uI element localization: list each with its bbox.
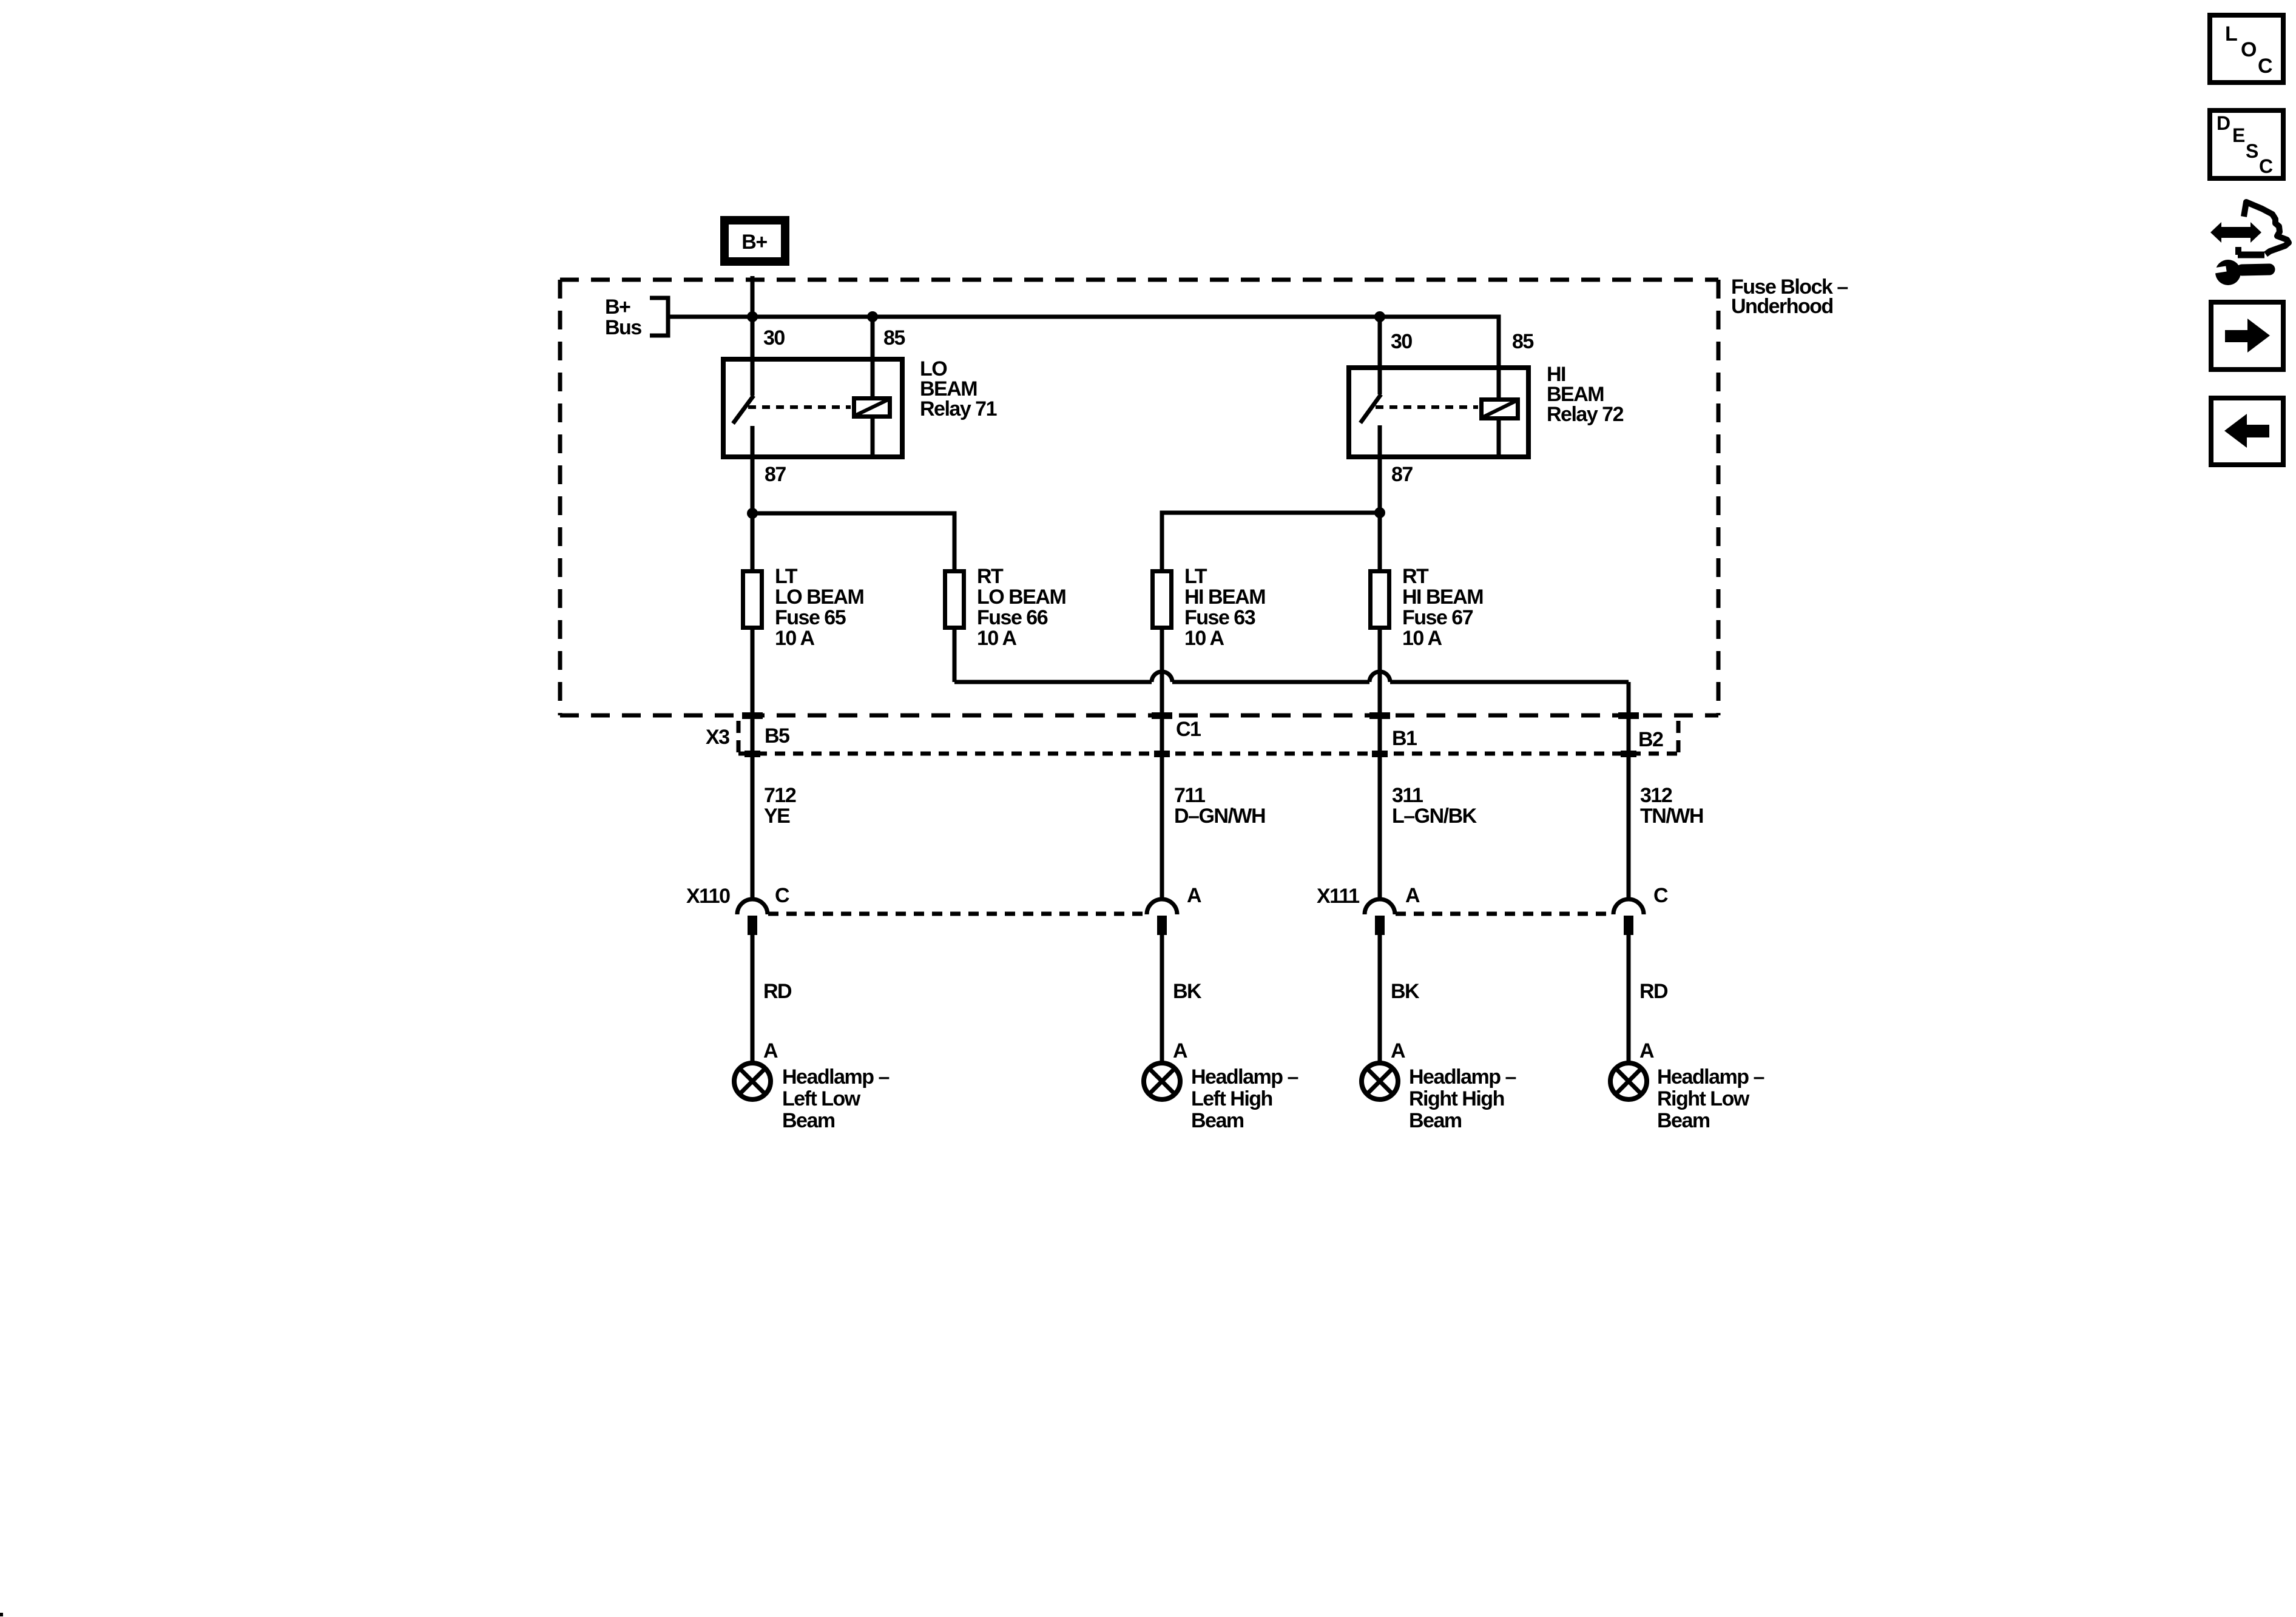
svg-text:D–GN/WH: D–GN/WH <box>1174 805 1265 828</box>
connector X110 pin A male terminal <box>1157 916 1167 935</box>
svg-text:HI BEAM: HI BEAM <box>1184 586 1265 609</box>
svg-text:B+: B+ <box>605 295 630 319</box>
svg-text:A: A <box>1639 1039 1654 1062</box>
connector X3 left bracket <box>737 721 741 757</box>
svg-text:A: A <box>1391 1039 1405 1062</box>
svg-text:B2: B2 <box>1638 728 1663 751</box>
svg-text:TN/WH: TN/WH <box>1640 805 1703 828</box>
lamp E1 label <box>782 1065 889 1132</box>
wire branch 87 to fuse 63 <box>1162 513 1380 569</box>
relay 71 actuation dashed link <box>748 405 851 409</box>
B+ power symbol box <box>724 220 785 262</box>
svg-text:Headlamp –: Headlamp – <box>1191 1065 1298 1089</box>
svg-text:C: C <box>775 884 789 907</box>
sidebar component view icon (arrow, part outline, wrench) <box>2210 202 2289 285</box>
svg-text:Fuse 66: Fuse 66 <box>977 606 1048 629</box>
lamp E4 label <box>1657 1065 1764 1132</box>
svg-text:BK: BK <box>1173 980 1202 1003</box>
relay 72 switch arm <box>1360 394 1381 423</box>
svg-text:HI BEAM: HI BEAM <box>1402 586 1483 609</box>
svg-text:Beam: Beam <box>782 1109 835 1132</box>
page corner mark <box>0 1613 3 1616</box>
relay 72 pin85 internal leads <box>1497 368 1501 397</box>
wire relay 72 pin 87 down <box>1378 457 1382 569</box>
svg-text:B5: B5 <box>765 724 789 748</box>
lamp E3 Headlamp Right High Beam <box>1362 1063 1398 1099</box>
relay 71 switch arm <box>733 396 754 424</box>
lamp E4 Headlamp Right Low Beam <box>1610 1063 1647 1099</box>
svg-text:B+: B+ <box>741 231 767 254</box>
wire bus to relay 72 pin 30 <box>1378 317 1382 368</box>
svg-text:RD: RD <box>763 980 792 1003</box>
wire circuit 311 L-GN/BK label <box>1392 784 1477 828</box>
svg-text:Beam: Beam <box>1191 1109 1244 1132</box>
connector X111 cavity A arc <box>1365 899 1395 914</box>
svg-text:A: A <box>763 1039 778 1062</box>
svg-text:YE: YE <box>764 805 790 828</box>
svg-text:Beam: Beam <box>1409 1109 1462 1132</box>
sidebar LOC icon box <box>2210 15 2283 83</box>
Fuse Block - Underhood label <box>1731 275 1848 318</box>
svg-text:87: 87 <box>1391 463 1413 486</box>
wire B+ down to relay 71 pin 30 <box>751 276 755 359</box>
connector X3 right bracket <box>1676 721 1681 757</box>
connector X111 pin C male terminal <box>1624 916 1633 935</box>
connector X110 cavity A arc <box>1147 899 1177 914</box>
svg-text:A: A <box>1187 884 1201 907</box>
svg-text:Fuse 63: Fuse 63 <box>1184 606 1255 629</box>
relay K72 HI BEAM Relay box <box>1349 368 1528 457</box>
fuse F65 label <box>775 565 863 650</box>
svg-text:B1: B1 <box>1392 727 1417 750</box>
svg-text:10 A: 10 A <box>1402 627 1442 650</box>
svg-text:C: C <box>2259 155 2273 177</box>
connector X3 lower dashed line <box>738 752 1678 756</box>
connector X110 pin C male terminal <box>748 916 757 935</box>
svg-text:Bus: Bus <box>605 316 641 339</box>
svg-text:C: C <box>2258 55 2272 78</box>
wire fuse 67 output to connector X3 pin B1 <box>1378 630 1382 899</box>
svg-text:Headlamp –: Headlamp – <box>1409 1065 1516 1089</box>
svg-text:A: A <box>1405 884 1420 907</box>
svg-text:LT: LT <box>1184 565 1207 588</box>
fuse F65 <box>743 572 762 628</box>
svg-text:RT: RT <box>1402 565 1429 588</box>
svg-text:712: 712 <box>764 784 796 807</box>
wire branch 87 to fuse 66 <box>752 513 954 569</box>
relay 72 coil <box>1482 400 1518 419</box>
wire BK to left high beam lamp <box>1160 934 1164 1063</box>
svg-text:312: 312 <box>1640 784 1672 807</box>
relay 71 pin85 internal leads <box>871 359 875 396</box>
junction node on bus at relay 71 pin 85 <box>867 311 878 322</box>
fuse F63 label <box>1184 565 1265 650</box>
svg-text:10 A: 10 A <box>977 627 1017 650</box>
svg-text:711: 711 <box>1174 784 1205 807</box>
svg-text:85: 85 <box>883 326 905 349</box>
svg-text:C: C <box>1653 884 1668 907</box>
wire RD to right low beam lamp <box>1627 934 1631 1063</box>
connector X3 lower ticks <box>745 751 1636 757</box>
junction node on bus at relay 71 pin 30 <box>747 311 758 322</box>
svg-text:E: E <box>2232 124 2245 146</box>
wire RD to left low beam lamp <box>751 934 755 1063</box>
fuse F66 label <box>977 565 1065 650</box>
sidebar back arrow icon box <box>2211 398 2283 465</box>
svg-text:Left Low: Left Low <box>782 1087 861 1110</box>
svg-text:Fuse 65: Fuse 65 <box>775 606 846 629</box>
svg-text:RT: RT <box>977 565 1004 588</box>
wire fuse 66 output to connector X3 pin B2 with crossover hops <box>954 630 1629 899</box>
lamp E2 label <box>1191 1065 1298 1132</box>
wire circuit 312 TN/WH label <box>1640 784 1703 828</box>
svg-text:BK: BK <box>1391 980 1420 1003</box>
connector X111 cavity C arc <box>1613 899 1644 914</box>
sidebar forward arrow icon box <box>2211 302 2283 370</box>
fuse F67 <box>1371 572 1389 628</box>
svg-text:Relay 72: Relay 72 <box>1547 403 1624 426</box>
svg-text:A: A <box>1173 1039 1187 1062</box>
svg-text:Fuse 67: Fuse 67 <box>1402 606 1473 629</box>
fuse block underhood dashed boundary box <box>560 280 1718 715</box>
svg-text:Right Low: Right Low <box>1657 1087 1750 1110</box>
svg-text:Headlamp –: Headlamp – <box>782 1065 889 1089</box>
svg-text:30: 30 <box>763 326 785 349</box>
wire relay 71 pin 87 down <box>751 457 755 569</box>
svg-text:85: 85 <box>1512 330 1533 353</box>
svg-text:O: O <box>2241 38 2257 61</box>
wire fuse 63 output to connector X3 pin C1 <box>1160 630 1164 899</box>
svg-text:10 A: 10 A <box>775 627 815 650</box>
svg-text:D: D <box>2217 112 2230 134</box>
lamp E3 label <box>1409 1065 1516 1132</box>
sidebar DESC icon box <box>2210 110 2283 178</box>
svg-text:Relay 71: Relay 71 <box>920 397 997 420</box>
svg-text:X110: X110 <box>686 885 730 908</box>
relay 71 name label <box>920 357 997 420</box>
wire B+ bus horizontal <box>669 317 1499 368</box>
svg-text:LT: LT <box>775 565 798 588</box>
svg-text:RD: RD <box>1639 980 1668 1003</box>
svg-text:Left High: Left High <box>1191 1087 1272 1110</box>
fuse F67 label <box>1402 565 1483 650</box>
relay 72 name label <box>1547 363 1624 426</box>
B+ Bus bracket <box>650 298 668 336</box>
wire BK to right high beam lamp <box>1378 934 1382 1063</box>
svg-text:311: 311 <box>1392 784 1423 807</box>
relay 71 coil <box>854 399 890 417</box>
relay 72 lower contact stub <box>1378 425 1382 457</box>
connector X110 dashed body line <box>768 912 1147 916</box>
relay 71 lower contact stub <box>751 426 755 457</box>
relay 72 pin30 internal lead <box>1378 368 1382 394</box>
connector X111 pin A male terminal <box>1375 916 1385 935</box>
relay K71 LO BEAM Relay box <box>723 359 902 457</box>
svg-text:X3: X3 <box>706 726 729 749</box>
svg-text:Beam: Beam <box>1657 1109 1710 1132</box>
svg-text:Headlamp –: Headlamp – <box>1657 1065 1764 1089</box>
svg-text:87: 87 <box>765 463 786 486</box>
svg-text:X111: X111 <box>1317 885 1359 908</box>
svg-text:L: L <box>2225 22 2237 46</box>
junction node at relay 72 87 branch <box>1374 507 1385 518</box>
svg-text:S: S <box>2246 140 2258 162</box>
svg-text:LO BEAM: LO BEAM <box>775 586 863 609</box>
wire circuit 711 D-GN/WH label <box>1174 784 1265 828</box>
fuse F63 <box>1153 572 1172 628</box>
connector X3 pass-through ticks on fuse block edge <box>742 712 1639 719</box>
svg-text:C1: C1 <box>1176 718 1201 741</box>
wire circuit 712 YE label <box>764 784 796 828</box>
junction node on bus at relay 72 pin 30 <box>1374 311 1385 322</box>
connector X111 dashed body line <box>1396 912 1613 916</box>
svg-text:30: 30 <box>1391 330 1412 353</box>
B+ Bus net label <box>605 295 641 339</box>
lamp E1 Headlamp Left Low Beam <box>734 1063 771 1099</box>
svg-text:Underhood: Underhood <box>1731 295 1833 318</box>
svg-text:LO BEAM: LO BEAM <box>977 586 1065 609</box>
fuse F66 <box>945 572 964 628</box>
wire fuse 65 output to connector X3 pin B5 <box>751 630 755 899</box>
svg-text:10 A: 10 A <box>1184 627 1224 650</box>
lamp E2 Headlamp Left High Beam <box>1144 1063 1180 1099</box>
relay 71 pin30 internal lead <box>751 359 755 396</box>
svg-text:L–GN/BK: L–GN/BK <box>1392 805 1477 828</box>
wire bus to relay 71 pin 85 <box>871 317 875 359</box>
junction node at relay 71 87 branch <box>747 508 758 519</box>
connector X110 cavity C arc <box>737 899 768 914</box>
relay 72 actuation dashed link <box>1376 405 1478 409</box>
svg-text:Right High: Right High <box>1409 1087 1504 1110</box>
